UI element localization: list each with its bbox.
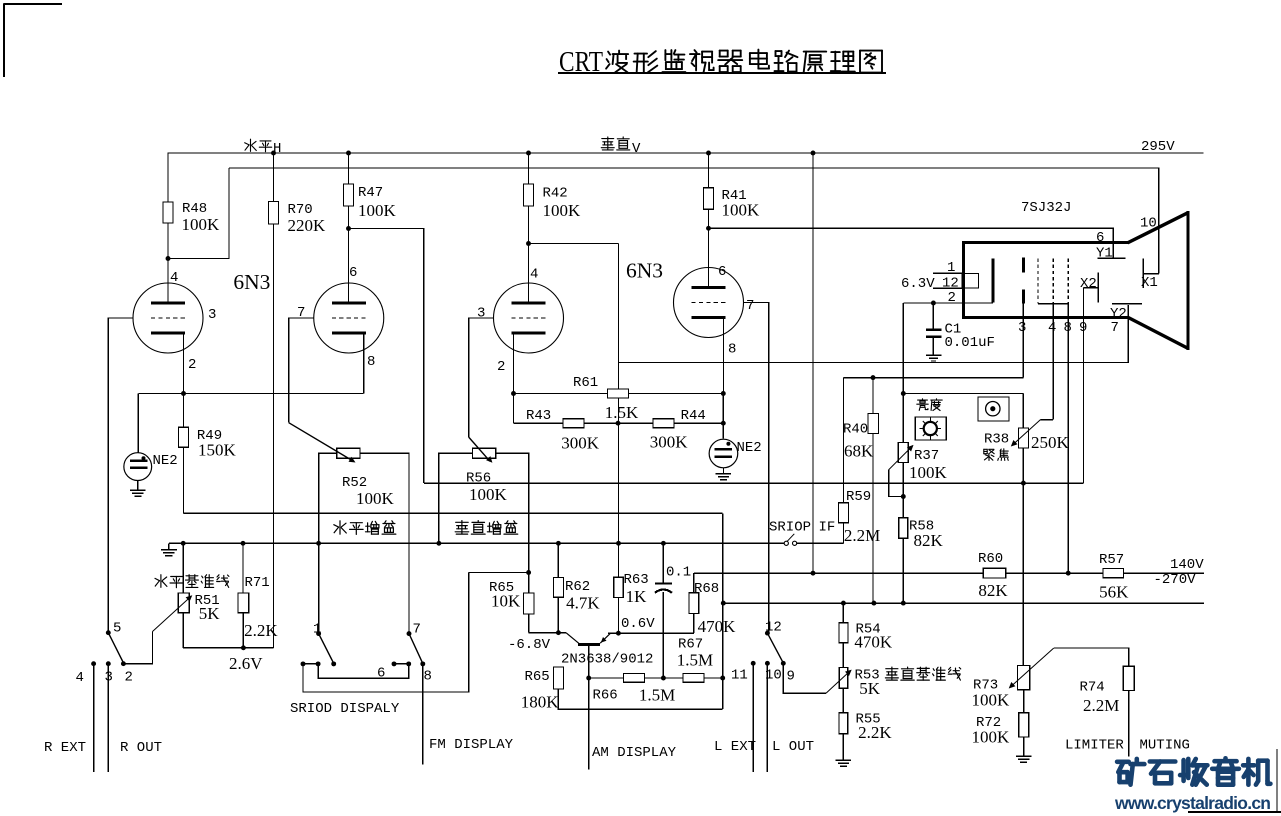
- resistor R49: [183, 394, 185, 428]
- wire brightness line cathode to R38: [903, 393, 1023, 395]
- wire L OUT terminal: [766, 663, 768, 772]
- node feed column bus1: [811, 151, 816, 156]
- neon lamp NE2 left: [124, 453, 152, 481]
- resistor R42: [528, 153, 530, 184]
- resistor R65 10K: [524, 593, 535, 614]
- svg-text:100K: 100K: [722, 201, 761, 220]
- svg-text:-270V: -270V: [1154, 572, 1197, 588]
- svg-text:2.2M: 2.2M: [1083, 696, 1119, 715]
- label 垂直基准线: [885, 667, 960, 680]
- pin 9 / X2 lead: [1097, 273, 1099, 303]
- node R67 right: [720, 676, 725, 681]
- wire tube2 grid to R52 wiper: [289, 318, 314, 423]
- svg-text:R42: R42: [543, 186, 568, 202]
- wire tube3 grid to R56 wiper: [469, 318, 494, 437]
- svg-text:4: 4: [170, 270, 178, 286]
- svg-text:1.5M: 1.5M: [639, 686, 675, 705]
- wire 2.6V node: [183, 647, 273, 649]
- svg-text:R40: R40: [843, 422, 868, 438]
- resistor R41: [708, 153, 710, 188]
- svg-text:12: 12: [765, 620, 782, 636]
- resistor R55: [839, 713, 848, 734]
- capacitor 0.1: [662, 543, 664, 583]
- node R43-R44 center: [616, 421, 621, 426]
- node R63 bottom: [616, 631, 621, 636]
- svg-text:100K: 100K: [972, 691, 1011, 710]
- svg-text:8: 8: [367, 354, 375, 370]
- svg-text:300K: 300K: [561, 434, 600, 453]
- net 垂直V label: [601, 137, 630, 150]
- svg-text:R OUT: R OUT: [120, 740, 162, 756]
- wire NE2 right feed: [722, 394, 724, 439]
- svg-text:5K: 5K: [199, 604, 221, 623]
- svg-text:L OUT: L OUT: [772, 739, 814, 755]
- svg-text:140V: 140V: [1170, 557, 1204, 573]
- svg-text:L EXT: L EXT: [714, 739, 756, 755]
- potentiometer R53: [839, 667, 848, 688]
- CRT cathode electrode: [991, 258, 994, 302]
- node R48-plate junction: [166, 256, 171, 261]
- wire G1 bias line: [844, 377, 1024, 379]
- wire R52 right to SRIOD pin7: [360, 453, 409, 633]
- svg-text:R44: R44: [681, 408, 706, 424]
- wire tube3 cathode down to R43 line: [513, 333, 515, 423]
- wire emitter 0.6V line: [608, 632, 694, 634]
- terminal Y1: [1098, 257, 1126, 259]
- node R41-plate junction: [706, 226, 711, 231]
- node R47 bus1: [346, 151, 351, 156]
- svg-text:6: 6: [1096, 230, 1104, 246]
- svg-text:3: 3: [477, 305, 485, 321]
- wire tube1 grid to R-switch: [108, 318, 133, 633]
- svg-text:7: 7: [413, 622, 421, 638]
- node pin 8: [420, 661, 425, 666]
- node -270V R58: [901, 601, 906, 606]
- label 水平基准线: [155, 575, 229, 588]
- triode V2a 6N3 (tube 3): [494, 283, 564, 353]
- node R44 right: [721, 421, 726, 426]
- svg-text:2: 2: [125, 670, 133, 686]
- svg-text:1.5M: 1.5M: [677, 651, 713, 670]
- svg-text:-6.8V: -6.8V: [508, 637, 551, 653]
- svg-text:56K: 56K: [1099, 583, 1129, 602]
- neon lamp NE2 right: [709, 439, 738, 468]
- resistor R54: [842, 603, 844, 623]
- wire R42 junction right then down (crosses R61): [529, 243, 619, 245]
- svg-text:R43: R43: [526, 408, 551, 424]
- wire L EXT terminal: [752, 663, 754, 772]
- svg-text:250K: 250K: [1031, 433, 1070, 452]
- ground C1: [926, 354, 941, 356]
- resistor R71: [242, 543, 244, 593]
- resistor R67: [683, 674, 704, 683]
- wire tube4 cathode down: [723, 318, 725, 394]
- svg-text:R71: R71: [245, 575, 270, 591]
- terminal X1: [1142, 258, 1144, 288]
- node rail 0.1 cap: [661, 541, 666, 546]
- switch SRIOD right contacts: [392, 661, 397, 666]
- svg-text:5: 5: [113, 621, 121, 637]
- svg-text:8: 8: [1064, 320, 1072, 336]
- switch L input pin12 blade: [765, 631, 770, 636]
- CRT anode dashed electrode 2: [1052, 258, 1054, 303]
- node -270V R49-return: [721, 601, 726, 606]
- svg-text:7: 7: [297, 305, 305, 321]
- svg-text:R47: R47: [358, 185, 383, 201]
- wire R47 junction to grid column: [349, 229, 424, 484]
- svg-text:FM DISPLAY: FM DISPLAY: [429, 737, 514, 753]
- label 垂直增益: [455, 521, 518, 535]
- svg-text:11: 11: [731, 668, 748, 684]
- ground symbol rail left: [168, 543, 170, 549]
- svg-text:R EXT: R EXT: [44, 740, 86, 756]
- potentiometer R51: [182, 543, 184, 593]
- resistor R70: [273, 153, 275, 202]
- CRT heater box: [962, 273, 979, 288]
- node R71 2.6V: [241, 645, 246, 650]
- resistor R44: [653, 419, 674, 428]
- wire R56 right down: [496, 453, 529, 593]
- svg-text:SRIOD DISPALY: SRIOD DISPALY: [290, 701, 400, 717]
- label 亮度: [917, 399, 942, 411]
- svg-text:R63: R63: [624, 572, 649, 588]
- svg-text:6N3: 6N3: [626, 259, 663, 283]
- svg-text:R38: R38: [984, 432, 1009, 448]
- svg-text:470K: 470K: [698, 617, 737, 636]
- svg-text:R37: R37: [914, 448, 939, 464]
- net 水平H label: [245, 139, 272, 152]
- potentiometer R56: [473, 448, 496, 458]
- svg-text:IF: IF: [819, 520, 836, 536]
- svg-text:100K: 100K: [356, 489, 395, 508]
- svg-text:2.6V: 2.6V: [229, 654, 263, 673]
- label 聚焦: [984, 449, 1009, 461]
- svg-text:3: 3: [208, 307, 216, 323]
- CRT anode dashed electrode 1: [1037, 258, 1039, 303]
- node R42-plate junction: [526, 241, 531, 246]
- svg-text:X1: X1: [1141, 275, 1158, 291]
- node -270V R40: [871, 601, 876, 606]
- svg-text:1.5K: 1.5K: [605, 403, 639, 422]
- wire R59 column from G1 line: [843, 378, 845, 503]
- node R41 bus1: [706, 151, 711, 156]
- svg-text:82K: 82K: [914, 531, 944, 550]
- wire collector node line: [529, 632, 566, 634]
- svg-text:6: 6: [377, 666, 385, 682]
- node 0.1 bottom: [661, 676, 666, 681]
- svg-text:180K: 180K: [521, 693, 560, 712]
- CRT flare and screen: [1128, 213, 1189, 243]
- resistor R63: [618, 543, 620, 577]
- svg-text:10K: 10K: [491, 592, 521, 611]
- svg-text:MUTING: MUTING: [1140, 738, 1190, 754]
- potentiometer R73: [1018, 665, 1030, 689]
- svg-text:6: 6: [349, 265, 357, 281]
- svg-text:2.2K: 2.2K: [244, 621, 278, 640]
- triode V1a 6N3 (tube 1): [133, 283, 203, 353]
- svg-text:7: 7: [1111, 320, 1119, 336]
- svg-text:100K: 100K: [469, 485, 508, 504]
- svg-text:300K: 300K: [650, 433, 689, 452]
- svg-text:100K: 100K: [182, 215, 221, 234]
- svg-text:100K: 100K: [543, 201, 582, 220]
- switch SRIOD pin7 blade: [407, 631, 412, 636]
- svg-text:NE2: NE2: [153, 453, 178, 469]
- wire horizontal output to X2: [424, 482, 1084, 484]
- node rail R62: [556, 541, 561, 546]
- CRT anode dashed electrode 3: [1067, 258, 1069, 303]
- node R37 wiper: [901, 494, 906, 499]
- wire bus1 295V horizontal: [168, 152, 1204, 154]
- node R62 bottom: [556, 630, 561, 635]
- svg-text:5K: 5K: [859, 679, 881, 698]
- node R47-plate junction: [346, 226, 351, 231]
- resistor R72: [1023, 690, 1025, 713]
- node tube4 cathode R61: [721, 391, 726, 396]
- node R65 top: [526, 570, 531, 575]
- svg-text:82K: 82K: [978, 581, 1008, 600]
- svg-text:Y1: Y1: [1096, 246, 1113, 262]
- triode V2b 6N3 (tube 4): [674, 268, 744, 338]
- resistor R47: [348, 153, 350, 184]
- wire R73 wiper to R74: [1054, 648, 1129, 666]
- svg-text:220K: 220K: [288, 216, 327, 235]
- control panel icon 亮度 box: [915, 417, 946, 440]
- wire R43/R44 line: [513, 394, 515, 424]
- resistor R66: [623, 674, 644, 683]
- wire R56 left to rail: [439, 453, 473, 543]
- wire vertical-amp output to Y2: [619, 305, 1129, 363]
- svg-text:68K: 68K: [844, 442, 874, 461]
- ground NE2 right: [722, 468, 724, 474]
- svg-text:470K: 470K: [854, 633, 893, 652]
- svg-text:100K: 100K: [358, 201, 397, 220]
- node R40 top: [871, 375, 876, 380]
- wire FM DISPLAY terminal: [422, 664, 424, 764]
- ground R55: [836, 759, 852, 761]
- svg-text:150K: 150K: [198, 441, 237, 460]
- svg-text:V: V: [632, 141, 641, 157]
- switch SRIOD pin1 blade: [316, 631, 321, 636]
- svg-text:4: 4: [530, 267, 538, 283]
- switch R input contacts: [91, 661, 96, 666]
- wire to NE2 left: [137, 394, 139, 453]
- switch SRIOD left contacts: [301, 661, 306, 666]
- svg-text:4: 4: [76, 670, 84, 686]
- svg-text:R74: R74: [1080, 680, 1105, 696]
- node R38 column on X2 line: [1021, 481, 1026, 486]
- resistor R61: [514, 393, 724, 395]
- resistor R43: [563, 419, 584, 428]
- node rail R56-left: [436, 541, 441, 546]
- resistor R68: [693, 573, 695, 593]
- potentiometer R37: [898, 443, 908, 463]
- resistor R58: [899, 518, 908, 539]
- ground R72: [1016, 755, 1031, 757]
- svg-text:R68: R68: [694, 581, 719, 597]
- svg-text:0.1: 0.1: [666, 565, 691, 581]
- label 水平增益: [334, 521, 396, 535]
- svg-text:R60: R60: [978, 551, 1003, 567]
- svg-text:NE2: NE2: [737, 440, 762, 456]
- svg-text:10: 10: [1140, 216, 1157, 232]
- wire bus2 to X1: [229, 168, 1159, 274]
- wire pin2 to R51 wiper: [123, 632, 152, 664]
- svg-text:6: 6: [718, 264, 726, 280]
- triode V1b 6N3 (tube 2): [314, 283, 384, 353]
- svg-text:6N3: 6N3: [233, 270, 270, 294]
- svg-text:www.crystalradio.cn: www.crystalradio.cn: [1114, 793, 1271, 813]
- svg-text:100K: 100K: [972, 728, 1011, 747]
- wire tube2 cathode down: [363, 333, 365, 394]
- wire pin9 to R53 wiper: [783, 663, 826, 693]
- resistor R60: [983, 568, 1006, 578]
- control panel icon focus box: [978, 397, 1009, 421]
- capacitor C1: [931, 301, 936, 306]
- svg-text:LIMITER: LIMITER: [1065, 738, 1124, 754]
- svg-text:100K: 100K: [909, 463, 948, 482]
- logo 矿石收音机: [1117, 758, 1270, 784]
- node -270V R54: [841, 601, 846, 606]
- svg-text:SRIOP: SRIOP: [769, 520, 811, 536]
- ground NE2 left: [137, 481, 139, 491]
- potentiometer R52: [337, 448, 360, 458]
- svg-text:4.7K: 4.7K: [566, 594, 600, 613]
- switch SRIOP IF contacts: [784, 541, 788, 545]
- wire AM DISPLAY terminal: [588, 678, 590, 770]
- wire R EXT terminal: [93, 664, 95, 773]
- svg-text:2: 2: [497, 359, 505, 375]
- svg-text:8: 8: [424, 669, 432, 685]
- svg-text:0.01uF: 0.01uF: [945, 335, 995, 351]
- svg-text:1: 1: [947, 260, 955, 276]
- wire R48 junction to bus2: [168, 168, 229, 259]
- node feed column 140V: [811, 571, 816, 576]
- svg-text:2.2M: 2.2M: [844, 526, 880, 545]
- svg-text:R66: R66: [593, 688, 618, 704]
- node rail R71: [241, 541, 246, 546]
- wire 295V feed column to 140V divider: [812, 153, 814, 573]
- node tube3 cathode R61: [511, 391, 516, 396]
- node tube1 cathode: [181, 391, 186, 396]
- wire CRT cathode bias column: [902, 303, 904, 443]
- svg-text:R57: R57: [1099, 552, 1124, 568]
- node pin8 140V: [1066, 571, 1071, 576]
- svg-text:R59: R59: [846, 489, 871, 505]
- svg-text:1: 1: [313, 622, 321, 638]
- node rail R63: [616, 541, 621, 546]
- wire tube4 grid to L-switch pin 12: [743, 303, 768, 634]
- svg-text:7: 7: [746, 298, 754, 314]
- resistor R62: [557, 543, 559, 577]
- pin 4 lead: [1052, 304, 1054, 420]
- svg-text:9: 9: [1079, 320, 1087, 336]
- wire R56 output line: [469, 572, 529, 574]
- svg-text:6.3V: 6.3V: [901, 276, 935, 292]
- node R42 bus1: [526, 151, 531, 156]
- svg-text:2N3638/9012: 2N3638/9012: [561, 652, 653, 668]
- CRT cathode lead: [903, 302, 993, 304]
- node brightness line: [901, 391, 906, 396]
- svg-text:AM DISPLAY: AM DISPLAY: [592, 745, 677, 761]
- wire -270V line: [723, 602, 1204, 604]
- node R70 bus1: [271, 151, 276, 156]
- pin 1 lead: [933, 272, 962, 274]
- svg-text:X2: X2: [1080, 276, 1097, 292]
- switch L input contacts: [751, 661, 756, 666]
- wire R OUT terminal: [107, 664, 109, 773]
- svg-text:R61: R61: [573, 375, 598, 391]
- wire R49 bottom rail to -270V return: [184, 512, 723, 514]
- resistor R65 180K: [554, 667, 564, 689]
- resistor R57: [1103, 568, 1124, 577]
- resistor R59: [839, 503, 849, 523]
- wire cathode line tubes 1-2: [138, 393, 363, 395]
- svg-text:8: 8: [728, 342, 736, 358]
- svg-text:1K: 1K: [626, 587, 648, 606]
- CRT grid G1 electrode: [1022, 257, 1025, 272]
- wire contact to pin6 contact: [318, 664, 409, 678]
- resistor R40: [872, 378, 874, 414]
- svg-text:9: 9: [787, 669, 795, 685]
- wire anode connector: [1038, 303, 1068, 305]
- svg-text:2.2K: 2.2K: [858, 723, 892, 742]
- pin 12 lead: [933, 287, 962, 289]
- wire R41 junction to Y1 terminal: [709, 228, 1114, 258]
- node rail R51: [181, 541, 186, 546]
- terminal Y2: [1112, 303, 1142, 305]
- ground rail: [169, 542, 784, 544]
- transistor Q1 2N3638/9012: [566, 633, 579, 644]
- svg-text:0.6V: 0.6V: [621, 616, 655, 632]
- wire contact to tube3-grid column: [303, 573, 469, 693]
- CRT envelope body: [964, 241, 1129, 244]
- svg-text:4: 4: [1048, 320, 1056, 336]
- node rail R52-left: [316, 541, 321, 546]
- resistor R74: [1123, 666, 1134, 690]
- resistor R48: [167, 153, 169, 202]
- svg-text:2: 2: [188, 357, 196, 373]
- node base: [586, 676, 591, 681]
- wire tube1 cathode down: [183, 333, 185, 394]
- wire base node line: [589, 677, 723, 679]
- svg-text:7SJ32J: 7SJ32J: [1021, 200, 1071, 216]
- wire R52 left to rail: [319, 453, 337, 633]
- switch R input: pin5 blade: [106, 630, 111, 635]
- pin 8 lead: [1067, 304, 1069, 574]
- wire 140V line: [694, 572, 1204, 574]
- potentiometer R38 250K: [1022, 394, 1024, 429]
- svg-text:3: 3: [1018, 320, 1026, 336]
- pin 3 lead from G1: [1022, 304, 1024, 378]
- svg-text:R65: R65: [525, 669, 550, 685]
